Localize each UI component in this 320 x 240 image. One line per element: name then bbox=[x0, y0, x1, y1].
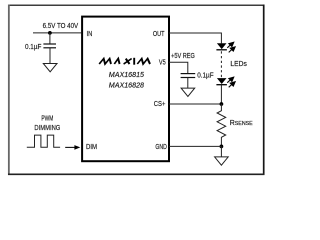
svg-text:+5V REG: +5V REG bbox=[171, 51, 195, 60]
svg-text:GND: GND bbox=[155, 144, 167, 151]
svg-text:0.1µF: 0.1µF bbox=[25, 42, 42, 51]
svg-text:PWM: PWM bbox=[41, 114, 53, 123]
svg-text:DIMMING: DIMMING bbox=[34, 123, 60, 132]
svg-text:LEDs: LEDs bbox=[230, 59, 247, 68]
svg-text:6.5V TO 40V: 6.5V TO 40V bbox=[43, 21, 79, 30]
svg-text:OUT: OUT bbox=[153, 31, 165, 38]
svg-text:IN: IN bbox=[87, 31, 93, 38]
svg-text:0.1µF: 0.1µF bbox=[197, 71, 214, 80]
svg-text:MAX16828: MAX16828 bbox=[109, 81, 145, 90]
svg-text:CS+: CS+ bbox=[154, 101, 166, 108]
svg-text:RSENSE: RSENSE bbox=[230, 120, 253, 127]
svg-text:V5: V5 bbox=[159, 60, 166, 67]
svg-text:MAX16815: MAX16815 bbox=[109, 70, 145, 79]
svg-text:DIM: DIM bbox=[86, 144, 97, 151]
